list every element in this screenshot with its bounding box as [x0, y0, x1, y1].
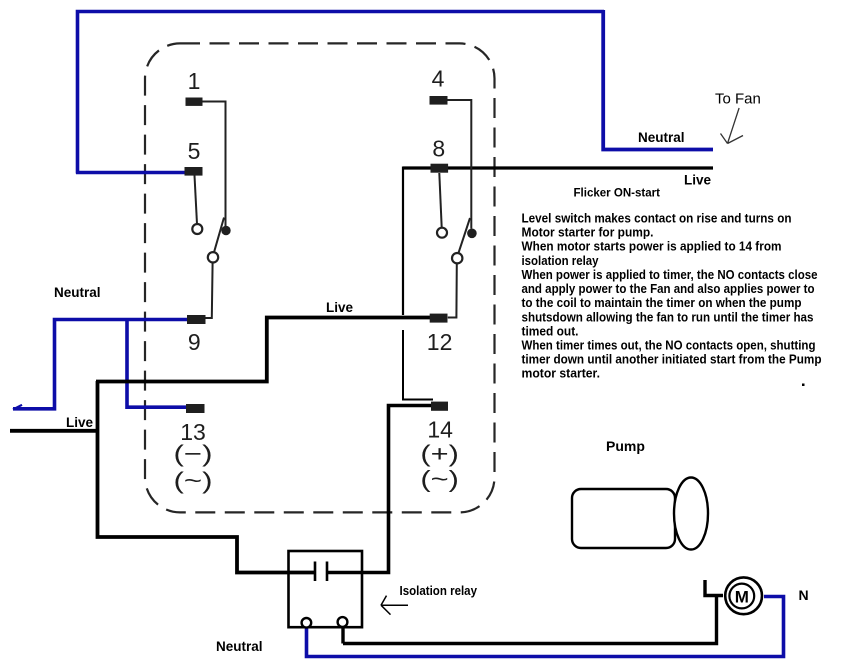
- svg-text:to the coil to maintain the ti: to the coil to maintain the timer on whe…: [522, 295, 802, 310]
- terminal 4: [430, 96, 448, 105]
- svg-text:8: 8: [432, 136, 445, 162]
- wire live top: [403, 166, 713, 169]
- svg-text:(+): (+): [420, 441, 459, 467]
- svg-text:M: M: [735, 588, 749, 607]
- svg-text:Neutral: Neutral: [216, 639, 263, 654]
- svg-text:9: 9: [188, 329, 201, 355]
- svg-text:(~): (~): [174, 467, 213, 493]
- terminal 1: [186, 98, 203, 106]
- svg-text:Live: Live: [684, 173, 712, 188]
- svg-text:Live: Live: [326, 300, 354, 315]
- wire live mid to 12: [96, 318, 430, 382]
- svg-text:4: 4: [432, 66, 445, 92]
- svg-text:Flicker ON-start: Flicker ON-start: [574, 186, 661, 200]
- switch S1 wires: [195, 102, 226, 319]
- svg-text:Level switch makes contact on: Level switch makes contact on rise and t…: [522, 211, 792, 226]
- capacitor coil symbol: [289, 562, 363, 582]
- pump impeller ellipse: [674, 478, 708, 550]
- svg-text:Neutral: Neutral: [54, 285, 101, 300]
- wire relay to motor: [343, 580, 723, 644]
- wire 8 to 14: [403, 330, 433, 400]
- terminal 8: [431, 164, 449, 173]
- wire relay to 14: [327, 406, 431, 573]
- svg-text:Isolation relay: Isolation relay: [400, 584, 478, 598]
- svg-text:shutsdown allowing the fan to: shutsdown allowing the fan to run until …: [522, 309, 814, 324]
- isolation relay box: [289, 551, 363, 627]
- svg-text:timed out.: timed out.: [522, 323, 579, 338]
- svg-text:To Fan: To Fan: [715, 91, 761, 108]
- pump body: [572, 489, 675, 548]
- terminal 12: [430, 314, 448, 323]
- motor M1: [725, 577, 762, 614]
- svg-text:motor starter.: motor starter.: [522, 366, 601, 381]
- svg-text:Motor starter for pump.: Motor starter for pump.: [522, 225, 654, 240]
- terminal 9: [187, 315, 206, 324]
- wire neutral bottom: [307, 597, 784, 657]
- svg-text:When motor starts power is app: When motor starts power is applied to 14…: [522, 239, 782, 254]
- svg-text:When timer times out, the NO c: When timer times out, the NO contacts op…: [522, 338, 816, 353]
- svg-text:Live: Live: [66, 415, 94, 430]
- svg-text:Neutral: Neutral: [638, 130, 685, 145]
- stray dot: [802, 384, 805, 387]
- terminal 5: [185, 167, 203, 176]
- wire neutral left: [13, 320, 187, 410]
- svg-text:1: 1: [188, 68, 201, 94]
- switch S2 wires: [439, 100, 471, 318]
- svg-text:and apply power to the Fan and: and apply power to the Fan and also appl…: [522, 281, 815, 296]
- terminal 13: [186, 404, 205, 413]
- wire live left to isolation relay: [10, 381, 314, 573]
- svg-text:timer down until another initi: timer down until another initiated start…: [522, 352, 822, 367]
- switch S2 contacts: [437, 228, 447, 238]
- svg-text:N: N: [799, 587, 809, 603]
- svg-text:When power is applied to timer: When power is applied to timer, the NO c…: [522, 267, 818, 282]
- svg-text:isolation relay: isolation relay: [522, 253, 600, 268]
- description text: [522, 211, 822, 381]
- isolation relay arrow: [381, 596, 408, 615]
- switch S1 contacts: [192, 224, 202, 234]
- wire neutral top: [76, 10, 713, 174]
- svg-text:(−): (−): [174, 441, 213, 467]
- svg-text:(~): (~): [420, 466, 459, 492]
- svg-text:14: 14: [427, 417, 453, 443]
- svg-text:12: 12: [427, 329, 453, 355]
- timer relay outline (dashed): [145, 43, 495, 512]
- terminal 14: [431, 402, 448, 411]
- svg-text:5: 5: [188, 138, 201, 164]
- to fan arrow: [721, 108, 744, 144]
- svg-text:Pump: Pump: [606, 438, 645, 454]
- relay terminal circles: [302, 618, 312, 628]
